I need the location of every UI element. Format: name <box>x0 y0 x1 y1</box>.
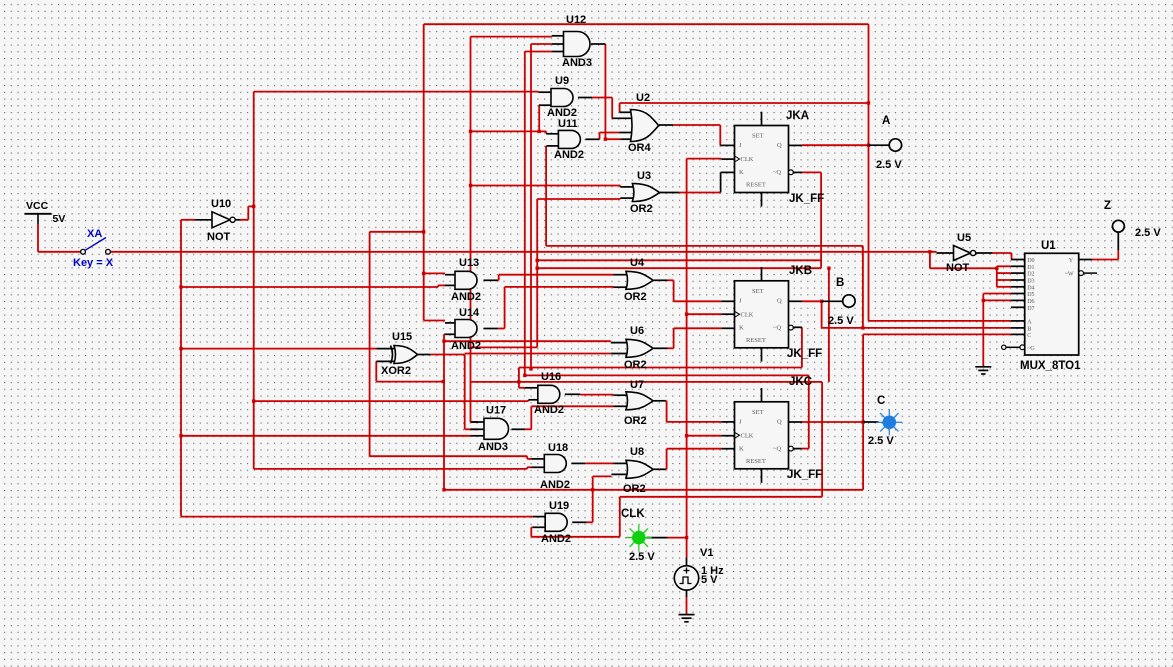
svg-text:AND3: AND3 <box>562 57 592 69</box>
svg-text:U11: U11 <box>558 118 578 130</box>
and-gate U11 AND2 <box>554 118 584 161</box>
svg-text:CLK: CLK <box>741 311 754 318</box>
mux U1 MUX_8TO1 <box>1020 240 1081 372</box>
svg-text:NOT: NOT <box>207 231 231 243</box>
wire net QB to U11 input 2 <box>546 146 863 328</box>
wire riser to U12 input 2 <box>531 44 552 369</box>
svg-text:CLK: CLK <box>621 508 645 520</box>
svg-text:C: C <box>1027 333 1031 339</box>
svg-text:AND2: AND2 <box>540 479 570 491</box>
wire net X to U10 input and down-distribution <box>181 220 533 517</box>
svg-text:XA: XA <box>87 228 102 240</box>
probe Z <box>1104 200 1161 239</box>
svg-text:A: A <box>882 115 890 127</box>
or-gate U7 OR2 <box>624 379 653 427</box>
probe A <box>876 115 902 171</box>
svg-text:OR2: OR2 <box>624 415 647 427</box>
svg-text:C: C <box>877 395 885 407</box>
svg-text:U9: U9 <box>555 75 569 87</box>
wire net N vertical (U19 output feedback) <box>444 334 445 490</box>
wire net X-bar (U10 output) distribution <box>240 92 539 469</box>
wire MUX D5 D6 to ground <box>983 294 1011 367</box>
probe CLK green star <box>621 508 655 563</box>
or-gate U2 OR4 <box>628 92 659 154</box>
wire long feedback run y381 <box>376 361 822 382</box>
svg-text:~G: ~G <box>1027 346 1035 352</box>
and-gate U16 AND2 <box>534 371 564 416</box>
svg-text:Q: Q <box>777 297 782 304</box>
svg-text:2.5 V: 2.5 V <box>629 551 655 563</box>
svg-text:K: K <box>739 445 744 452</box>
svg-text:~Q: ~Q <box>773 169 782 176</box>
wire U4 output to JKB J and U6 output to JKB K <box>668 280 722 348</box>
svg-text:5 V: 5 V <box>701 574 718 586</box>
wire net QC feedback <box>444 334 1011 489</box>
svg-text:JK_FF: JK_FF <box>787 348 822 360</box>
wire U11 output to U2 OR4 input 3 <box>600 133 620 140</box>
svg-text:D0: D0 <box>1027 258 1034 264</box>
svg-text:AND3: AND3 <box>478 441 508 453</box>
svg-text:U6: U6 <box>630 325 644 337</box>
svg-text:AND2: AND2 <box>541 533 571 545</box>
svg-text:CLK: CLK <box>741 432 754 439</box>
and-gate U12 AND3 <box>562 14 592 69</box>
probe C blue star <box>868 395 902 447</box>
mux ~W pin <box>1079 271 1097 276</box>
or-gate U8 OR2 <box>623 446 653 495</box>
svg-text:U10: U10 <box>211 198 231 210</box>
svg-text:AND2: AND2 <box>451 340 481 352</box>
svg-text:D2: D2 <box>1027 272 1034 278</box>
svg-text:D7: D7 <box>1027 306 1034 312</box>
svg-text:2.5 V: 2.5 V <box>868 435 894 447</box>
wire riser to U12 input 3 <box>525 52 552 376</box>
svg-text:B: B <box>1027 326 1031 332</box>
or-gate U3 OR2 <box>630 170 659 215</box>
svg-text:OR2: OR2 <box>623 483 646 495</box>
svg-text:SET: SET <box>752 409 764 416</box>
flip-flop JKA JK_FF <box>735 110 825 205</box>
svg-text:JK_FF: JK_FF <box>787 469 822 481</box>
ground at MUX D5/D6 <box>975 367 991 374</box>
probe B <box>828 277 855 327</box>
svg-text:D3: D3 <box>1027 279 1034 285</box>
wire MUX Y output to probe Z <box>1092 250 1118 260</box>
black pin stubs <box>195 36 1118 597</box>
wire U2 output to JKA J and U3 output to JKA K <box>673 125 720 193</box>
or-gate U4 OR2 <box>624 257 653 303</box>
and-gate U17 AND3 <box>478 405 509 454</box>
svg-text:~Q: ~Q <box>773 324 782 331</box>
wire: X to U10 input <box>0 0 1 1</box>
svg-text:K: K <box>739 169 744 176</box>
power VCC <box>25 200 66 225</box>
wire net X main run (switch to U5 input) <box>110 251 936 253</box>
wire JKB Q to probe B and MUX B <box>802 268 1011 382</box>
svg-text:NOT: NOT <box>946 262 970 274</box>
svg-text:JKC: JKC <box>789 376 812 388</box>
svg-text:U15: U15 <box>392 331 412 343</box>
svg-text:Q: Q <box>777 418 782 425</box>
svg-text:OR2: OR2 <box>624 359 647 371</box>
svg-text:XOR2: XOR2 <box>381 365 411 377</box>
and-gate U9 AND2 <box>547 75 577 119</box>
svg-text:U7: U7 <box>630 379 644 391</box>
wire JKC Q-bar stub <box>802 448 809 450</box>
and-gate U19 AND2 <box>541 500 571 545</box>
svg-text:U1: U1 <box>1041 240 1056 252</box>
svg-text:V1: V1 <box>700 547 713 559</box>
svg-text:~W: ~W <box>1065 272 1074 278</box>
inverter U10 <box>207 198 235 243</box>
svg-text:A: A <box>1027 319 1032 325</box>
svg-text:RESET: RESET <box>746 182 766 189</box>
svg-text:U19: U19 <box>549 500 569 512</box>
svg-text:D5: D5 <box>1027 292 1034 298</box>
svg-text:AND2: AND2 <box>554 149 584 161</box>
svg-text:RESET: RESET <box>746 337 766 344</box>
svg-text:U18: U18 <box>548 442 568 454</box>
svg-text:Q: Q <box>777 142 782 149</box>
and-gate U14 AND2 <box>451 307 481 352</box>
svg-text:SET: SET <box>752 133 764 140</box>
svg-text:D4: D4 <box>1027 285 1034 291</box>
wire U17 output to U7 input 2 <box>525 406 614 429</box>
svg-text:B: B <box>836 277 844 289</box>
svg-text:K: K <box>739 324 744 331</box>
svg-text:U5: U5 <box>957 232 971 244</box>
svg-text:JKA: JKA <box>786 110 809 122</box>
svg-text:U17: U17 <box>486 405 506 417</box>
svg-text:U12: U12 <box>566 14 586 26</box>
svg-text:SET: SET <box>752 288 764 295</box>
wire CLK probe tap <box>668 537 687 539</box>
wire JKC Q to probe C and MUX C <box>802 421 863 423</box>
wire net CLK distribution <box>687 159 722 558</box>
svg-text:AND2: AND2 <box>451 291 481 303</box>
svg-text:2.5 V: 2.5 V <box>876 159 902 171</box>
wire net N to U6 input 1 <box>444 340 611 342</box>
wire V1 to ground <box>686 597 688 615</box>
svg-text:2.5 V: 2.5 V <box>828 315 854 327</box>
wire U16 output to U7 input 1 <box>580 394 613 396</box>
wire U14 output to U4 input 2 <box>498 287 613 329</box>
svg-text:U13: U13 <box>459 257 479 269</box>
inverter U5 <box>946 232 976 274</box>
svg-text:D6: D6 <box>1027 299 1034 305</box>
wire U18 output to U8 input 1 <box>585 462 613 464</box>
svg-text:U14: U14 <box>459 307 480 319</box>
wire net QA feedback loop <box>370 24 1011 459</box>
svg-text:U4: U4 <box>630 257 645 269</box>
flip-flop JKB JK_FF <box>735 265 823 360</box>
wire net M to U19 input 2 <box>531 382 822 537</box>
wire U12 output to U2 OR4 input 4 <box>605 44 620 139</box>
mux ~G pin <box>1002 345 1025 350</box>
wire JKA Q to probe A and MUX <box>802 144 869 146</box>
svg-text:OR2: OR2 <box>630 203 653 215</box>
flip-flop JKC JK_FF <box>735 376 823 481</box>
svg-text:5V: 5V <box>53 213 66 225</box>
wire U7 output to JKC J and U8 output to JKC K <box>666 401 722 470</box>
wire net X to MUX D1-D4 <box>930 252 1011 287</box>
svg-text:U8: U8 <box>630 446 644 458</box>
wire net QB-bar from JKB to U16 and U17 <box>519 327 802 388</box>
wire VCC to switch XA <box>38 224 81 252</box>
svg-text:OR2: OR2 <box>624 291 647 303</box>
and-gate U13 AND2 <box>451 257 481 303</box>
or-gate U6 OR2 <box>624 325 653 371</box>
svg-text:CLK: CLK <box>741 156 754 163</box>
svg-text:JKB: JKB <box>789 265 812 277</box>
svg-text:VCC: VCC <box>26 200 49 212</box>
switch XA Key=X <box>73 228 114 269</box>
ground below V1 <box>679 615 695 622</box>
svg-text:~Q: ~Q <box>773 445 782 452</box>
svg-text:Z: Z <box>1104 200 1111 212</box>
svg-text:U2: U2 <box>636 92 650 104</box>
svg-text:Y: Y <box>1069 258 1074 264</box>
clock source V1 <box>674 547 724 590</box>
svg-text:D1: D1 <box>1027 265 1034 271</box>
svg-text:U3: U3 <box>637 170 651 182</box>
xor-gate U15 XOR2 <box>381 331 418 377</box>
svg-text:U16: U16 <box>541 371 561 383</box>
wire U5 output to MUX D0 <box>992 253 1011 260</box>
svg-text:JK_FF: JK_FF <box>789 193 824 205</box>
wire U19 output to U8 input 2 <box>587 476 612 522</box>
svg-text:OR4: OR4 <box>628 142 652 154</box>
svg-text:AND2: AND2 <box>534 404 564 416</box>
svg-text:Key = X: Key = X <box>73 257 114 269</box>
wire net QC-bar distribution <box>525 375 809 448</box>
wire U15 XOR output to U17 and U6 <box>430 354 611 430</box>
svg-text:MUX_8TO1: MUX_8TO1 <box>1020 360 1081 372</box>
and-gate U18 AND2 <box>540 442 570 491</box>
wire net QA-bar feedback <box>471 172 821 347</box>
svg-text:2.5 V: 2.5 V <box>1135 227 1161 239</box>
wire U9 output to U2 OR4 input 2 <box>592 98 612 119</box>
wire U13 output to U4 input 1 <box>498 275 614 281</box>
wire net QB-bar distribution column <box>471 37 621 422</box>
svg-text:RESET: RESET <box>746 458 766 465</box>
